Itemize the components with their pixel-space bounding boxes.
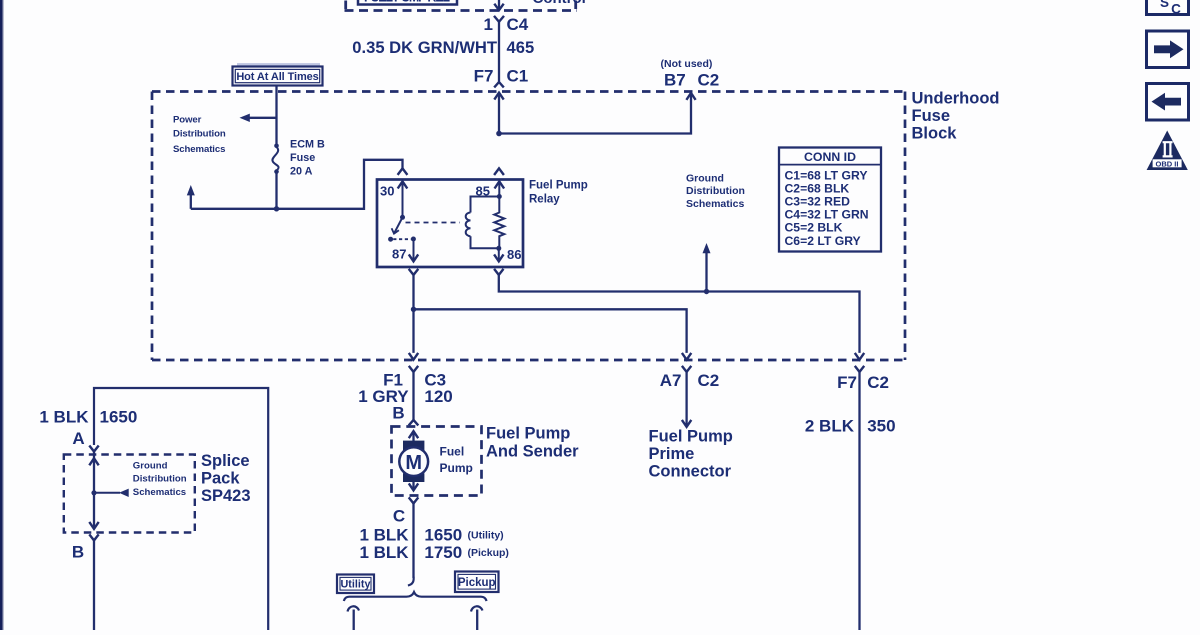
nav icon box right-arrow (1147, 31, 1189, 68)
fuel pump and sender dashed box (392, 427, 482, 496)
svg-text:2 BLK: 2 BLK (805, 417, 855, 436)
relay coil branch (471, 197, 500, 213)
svg-text:Connector: Connector (649, 463, 732, 481)
connector B below splice (89, 534, 98, 540)
arrow out of pump (412, 482, 414, 490)
svg-text:Fuse: Fuse (912, 107, 951, 125)
svg-text:C1=68 LT GRY: C1=68 LT GRY (785, 168, 868, 182)
either-or brace (344, 592, 487, 601)
ground wire route (up, left, down) (94, 388, 268, 630)
svg-text:SP423: SP423 (201, 487, 251, 505)
underhood fuse block dashed box (152, 90, 905, 93)
Hot At All Times label box (233, 67, 323, 86)
connector C below pump (409, 497, 419, 503)
svg-text:20 A: 20 A (290, 166, 313, 178)
OBD II triangle icon (1147, 131, 1188, 171)
svg-text:465: 465 (507, 38, 535, 57)
junction node under fuse (274, 206, 279, 211)
relay switch pivot node (400, 215, 405, 220)
svg-text:Power: Power (173, 115, 202, 126)
wire end curl (408, 577, 414, 586)
connector to relay pin 85 (494, 168, 504, 175)
svg-text:87: 87 (392, 246, 406, 261)
wire from hot feed down to fuse (275, 86, 277, 145)
wire fuse bottom (275, 172, 277, 209)
connector A7 C2 (682, 366, 691, 372)
svg-text:Fuse: Fuse (290, 152, 315, 164)
svg-text:30: 30 (380, 184, 394, 199)
svg-text:(Pickup): (Pickup) (468, 547, 509, 559)
splice junction node (91, 490, 96, 495)
nav icon box SC (cut off at top) (1147, 0, 1189, 15)
arrow to ground distribution schematics (705, 252, 707, 292)
svg-text:(Not used): (Not used) (661, 58, 713, 70)
left arrow glyph (1152, 93, 1182, 111)
connector symbol pin 1 C4 (494, 16, 504, 22)
fuse ECM B 20A (274, 144, 279, 149)
fuel pump motor M1 (403, 441, 424, 451)
svg-text:Utility: Utility (341, 579, 371, 591)
svg-text:C6=2 LT GRY: C6=2 LT GRY (785, 234, 861, 248)
pickup drop wire (471, 606, 483, 611)
wire 350 down off page (858, 372, 860, 630)
svg-text:Distribution: Distribution (686, 185, 745, 197)
CONN ID table (779, 148, 881, 252)
svg-text:Splice: Splice (201, 452, 250, 470)
svg-text:S: S (1160, 0, 1169, 10)
svg-text:B7: B7 (664, 71, 686, 90)
junction node on ground wire (704, 289, 709, 294)
svg-text:Ground: Ground (133, 461, 168, 472)
svg-text:C2=68 BLK: C2=68 BLK (785, 181, 850, 195)
wire branch to fuel pump prime connector (414, 309, 687, 353)
svg-text:M: M (405, 452, 422, 474)
relay pin 85 arrow (495, 181, 505, 188)
svg-text:1 BLK: 1 BLK (359, 543, 409, 562)
svg-text:A: A (72, 429, 84, 448)
svg-text:1750: 1750 (424, 543, 462, 562)
relay switch blade (394, 217, 402, 233)
scan bleed smudge (237, 63, 320, 66)
arrow to F1 C3 (409, 353, 418, 360)
svg-text:Prime: Prime (649, 445, 695, 463)
svg-text:Fuel Pump: Fuel Pump (529, 180, 588, 192)
svg-text:0.35 DK GRN/WHT: 0.35 DK GRN/WHT (352, 38, 497, 57)
connector caret B above pump assembly (409, 420, 419, 426)
svg-text:C4: C4 (507, 15, 529, 34)
relay resistor (parallel) (494, 197, 504, 249)
arrow into splice pack (89, 458, 98, 465)
svg-text:Fuel Pump: Fuel Pump (649, 428, 733, 446)
Utility label box (337, 575, 374, 594)
svg-text:Pickup: Pickup (458, 577, 496, 589)
svg-text:C2: C2 (867, 373, 889, 392)
page left navy edge stripe (0, 0, 4, 630)
arrow out of splice pack (89, 522, 98, 529)
svg-text:C: C (1171, 1, 1181, 16)
wire down off page (93, 540, 95, 630)
PCM module dashed box (cut off at top) (345, 9, 578, 12)
wire down from pump (412, 503, 414, 578)
wire from fuse to relay pin 30 (191, 160, 403, 209)
svg-text:ECM B: ECM B (290, 139, 325, 151)
Pickup label box (455, 572, 499, 593)
svg-text:Distribution: Distribution (133, 474, 187, 485)
connector F1 C3 at fuse block edge (409, 366, 418, 372)
connector below relay pin 86 (494, 269, 503, 275)
svg-text:1 BLK: 1 BLK (39, 408, 89, 427)
svg-text:Schematics: Schematics (133, 487, 186, 498)
svg-text:B: B (392, 404, 404, 423)
svg-text:C4=32 LT GRN: C4=32 LT GRN (785, 208, 869, 222)
relay pin 87 (411, 237, 416, 242)
connector to relay pin 30 (398, 168, 408, 175)
svg-text:1: 1 (484, 15, 493, 34)
svg-text:C5=2 BLK: C5=2 BLK (785, 221, 843, 235)
svg-text:Fuel: Fuel (440, 445, 465, 459)
connector below relay pin 87 (409, 269, 419, 275)
junction node on pin87 wire (411, 307, 416, 312)
svg-text:Block: Block (912, 125, 958, 143)
svg-text:B: B (72, 543, 84, 562)
svg-text:A7: A7 (660, 371, 682, 390)
PCM inner label box (cut off) (358, 0, 457, 5)
svg-text:Distribution: Distribution (173, 129, 226, 140)
svg-text:Control: Control (533, 0, 586, 7)
svg-text:1650: 1650 (100, 408, 138, 427)
wire branch to B7 C2 (499, 93, 691, 134)
svg-text:(Utility): (Utility) (468, 530, 504, 542)
svg-text:F7: F7 (474, 67, 494, 86)
svg-text:1650: 1650 (424, 526, 462, 545)
splice pack SP423 dashed box (64, 455, 195, 533)
arrow up-left branch (187, 185, 195, 195)
arrow to power distribution schematics (249, 117, 277, 119)
wire 465 vertical (498, 22, 500, 82)
connector F7 C2 bottom right (855, 366, 864, 372)
dashed link blade to pin 87 (393, 238, 411, 240)
svg-text:Schematics: Schematics (173, 144, 225, 155)
arrow into fuse block at F7 C1 (494, 93, 503, 100)
wire from PCM down to C4 (498, 0, 500, 10)
svg-text:OBD II: OBD II (1156, 159, 1179, 168)
relay K1 box (377, 180, 523, 268)
svg-text:And Sender: And Sender (486, 442, 579, 460)
svg-text:C2: C2 (698, 371, 720, 390)
relay actuator dashed line (406, 222, 461, 224)
relay switch contact node (388, 237, 393, 242)
svg-text:1 BLK: 1 BLK (359, 526, 409, 545)
svg-text:Ground: Ground (686, 173, 724, 185)
arrow into pump (409, 431, 418, 438)
relay pin 30 arrow (398, 181, 408, 188)
svg-text:Relay: Relay (529, 194, 560, 206)
svg-text:Pump: Pump (440, 461, 473, 475)
svg-text:CONN ID: CONN ID (804, 150, 856, 164)
right arrow glyph (1154, 40, 1184, 58)
arrow to ground distribution schematics (splice) (94, 492, 120, 494)
svg-text:86: 86 (507, 247, 521, 262)
svg-text:C: C (393, 507, 405, 526)
svg-text:FUEL PUMP REL: FUEL PUMP REL (364, 0, 450, 5)
svg-text:Hot At All Times: Hot At All Times (236, 71, 318, 83)
wire pin 87 down (412, 275, 414, 353)
nav icon box left-arrow (1147, 84, 1189, 121)
relay pin 86 (498, 248, 500, 261)
wire pin 86 down and right (499, 275, 860, 353)
utility drop wire (348, 606, 360, 611)
svg-text:C3=32 RED: C3=32 RED (785, 195, 851, 209)
svg-text:F7: F7 (837, 373, 857, 392)
junction node at main wire (496, 131, 502, 137)
svg-text:C2: C2 (698, 71, 720, 90)
connector caret above fuse block at F7 C1 (494, 82, 504, 87)
svg-text:350: 350 (867, 417, 895, 436)
svg-text:Pack: Pack (201, 470, 240, 488)
svg-text:Schematics: Schematics (686, 198, 745, 210)
svg-text:Underhood: Underhood (912, 90, 1000, 108)
svg-text:120: 120 (424, 387, 452, 406)
svg-text:C1: C1 (507, 67, 529, 86)
svg-text:Fuel Pump: Fuel Pump (486, 424, 570, 442)
